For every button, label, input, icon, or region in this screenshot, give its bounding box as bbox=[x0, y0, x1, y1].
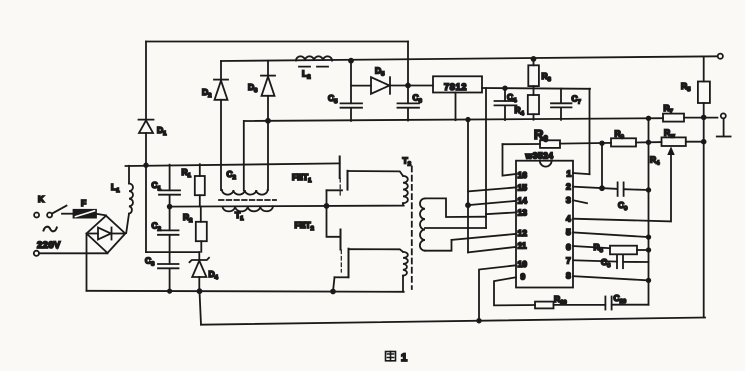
bridge rectifier bbox=[87, 216, 126, 253]
wire T2 secondary centre tap bbox=[425, 227, 486, 229]
wire T2 secondary bottom tap bbox=[425, 240, 452, 251]
svg-text:15: 15 bbox=[518, 183, 528, 193]
capacitor C1 bbox=[169, 165, 171, 191]
transistor Q1 FET1 channel bar bbox=[347, 171, 349, 190]
transformer T1 lower winding bbox=[223, 206, 273, 211]
wire pin 3 stub bbox=[573, 200, 587, 203]
transformer T1 upper winding bbox=[222, 190, 268, 195]
node D5/C6 junction bbox=[406, 84, 410, 88]
wire pin 16 to R6 bbox=[503, 144, 517, 175]
svg-text:2: 2 bbox=[566, 182, 571, 192]
wire vertical x484 from 7812 output bbox=[485, 88, 487, 228]
wire vertical bus x468 bbox=[467, 120, 469, 253]
wire FET2 gate feed bbox=[327, 206, 341, 237]
transistor Q2 FET2 channel dashes bbox=[340, 250, 342, 272]
resistor R9 bbox=[611, 138, 636, 146]
wire T2 secondary top tap bbox=[425, 198, 486, 217]
transistor Q2 FET2 gate bar bbox=[340, 230, 342, 250]
resistor R6 bbox=[503, 143, 541, 145]
node C1/C2 mid junction bbox=[168, 205, 172, 209]
svg-text:220V: 220V bbox=[37, 240, 61, 251]
svg-text:w3524: w3524 bbox=[525, 151, 554, 161]
svg-text:6: 6 bbox=[566, 242, 571, 252]
wire bottom rail B bbox=[201, 318, 705, 325]
svg-text:5: 5 bbox=[566, 227, 571, 237]
wire ground rail bbox=[244, 118, 663, 121]
svg-text:11: 11 bbox=[518, 241, 527, 251]
wire bottom rail A bbox=[87, 291, 404, 292]
svg-text:12: 12 bbox=[518, 228, 528, 238]
wire pin 5 bbox=[573, 232, 649, 237]
wire T1 winding left lead to D2 bbox=[220, 100, 222, 190]
capacitor C10 bbox=[604, 297, 606, 310]
node pin10 on rail B bbox=[477, 319, 481, 323]
wire pin 6 / resistor R8 bbox=[573, 246, 610, 248]
op-amp U1 w3524 PWM IC body bbox=[516, 161, 573, 288]
resistor R1 bbox=[199, 164, 201, 176]
regulator U2 7812 bbox=[433, 76, 482, 92]
figure caption bbox=[386, 352, 396, 361]
node D4 bottom on rail A bbox=[198, 289, 202, 293]
wire to D4 bbox=[146, 251, 199, 253]
svg-text:10: 10 bbox=[518, 259, 528, 269]
output terminal - bbox=[721, 113, 726, 118]
wire left vertical lower segment bbox=[145, 165, 147, 252]
wire vertical R6-right to pin2 bbox=[601, 143, 603, 188]
svg-text:8: 8 bbox=[566, 271, 571, 281]
wire pin 4 to potentiometer wiper bbox=[573, 154, 671, 222]
svg-text:7: 7 bbox=[566, 256, 571, 266]
capacitor C5 bbox=[350, 61, 352, 103]
wire ground rail right bbox=[684, 117, 717, 119]
svg-text:13: 13 bbox=[518, 208, 528, 218]
diode D3 bbox=[267, 61, 269, 76]
transformer T2 primary winding 1 bbox=[348, 171, 404, 176]
wire bridge left corner down bbox=[86, 234, 88, 291]
wire pin 1 bbox=[573, 173, 590, 174]
AC source symbol bbox=[44, 227, 57, 232]
node pin14 tap bbox=[466, 203, 470, 207]
zener diode D4 bbox=[198, 252, 200, 260]
svg-text:9: 9 bbox=[521, 272, 526, 282]
capacitor C2 bbox=[158, 229, 179, 231]
transformer T2 primary winding 2 bbox=[349, 249, 404, 252]
svg-text:14: 14 bbox=[518, 196, 528, 206]
resistor R4 bbox=[528, 95, 539, 114]
diode D1 bbox=[145, 42, 147, 120]
transistor Q2 FET2 source lead bbox=[335, 276, 349, 278]
wire vertical 7812-out to pin1 bbox=[589, 89, 591, 174]
wire pin 2 / capacitor C9 bbox=[573, 187, 617, 189]
resistor R7 bbox=[663, 114, 684, 122]
wire pin 10 down to bottom rail bbox=[479, 265, 516, 322]
transistor Q1 FET1 channel dashes bbox=[339, 179, 341, 198]
wire pin 7 / capacitor C8 bbox=[573, 260, 617, 261]
svg-text:3: 3 bbox=[566, 195, 571, 205]
transistor Q1 FET1 source lead bbox=[327, 189, 343, 191]
capacitor C4 bbox=[503, 86, 507, 90]
svg-text:1: 1 bbox=[567, 169, 572, 179]
inductor L2 bbox=[296, 56, 332, 60]
capacitor C7 bbox=[560, 89, 562, 104]
wire to pin 12 bbox=[452, 234, 517, 240]
T1 core bbox=[219, 199, 276, 201]
inductor L1 bbox=[128, 166, 130, 184]
wire T1 winding centre lead bbox=[243, 121, 245, 190]
transistor Q1 FET1 gate bar bbox=[339, 157, 341, 179]
wire AC bottom to bridge bbox=[39, 252, 107, 254]
AC lower terminal bbox=[34, 251, 39, 256]
wire vertical from top rail to D5 output node bbox=[407, 42, 409, 86]
fuse F bbox=[74, 210, 97, 218]
resistor R10 bbox=[535, 302, 554, 309]
svg-text:4: 4 bbox=[566, 214, 571, 224]
wire 7812 ground pin bbox=[455, 93, 457, 121]
switch K bbox=[34, 213, 39, 218]
capacitor C3 bbox=[158, 263, 179, 265]
transistor Q2 FET2 channel bar bbox=[348, 249, 350, 278]
wire vertical bus x648 bbox=[648, 118, 650, 304]
wire T1 winding right lead to D3 bbox=[267, 96, 269, 190]
resistor R2 bbox=[200, 207, 202, 222]
node D3 lead on ground rail bbox=[266, 119, 270, 123]
output terminal + bbox=[718, 54, 723, 59]
wire pin 9 to R10 bbox=[494, 277, 535, 305]
svg-text:7812: 7812 bbox=[444, 82, 467, 92]
node C3 bottom on rail A bbox=[168, 289, 171, 292]
node rail/x468 bbox=[466, 118, 470, 122]
node C5 top junction bbox=[349, 59, 353, 63]
wire to pin 13 bbox=[486, 212, 516, 214]
wire top rail bbox=[146, 41, 408, 43]
svg-text:1: 1 bbox=[401, 352, 407, 364]
wire gate rail bbox=[126, 163, 340, 166]
wire 7812 output bbox=[482, 87, 590, 90]
wire HV line to + output bbox=[221, 56, 717, 61]
node rail/D1 junction bbox=[144, 163, 148, 167]
svg-text:16: 16 bbox=[518, 170, 528, 180]
wire R6 to R9 bbox=[560, 142, 611, 145]
potentiometer Rw bbox=[662, 137, 686, 146]
wire rail A to rail B link bbox=[200, 291, 202, 325]
capacitor C6 bbox=[407, 86, 409, 104]
wire right vertical down to bottom rail bbox=[703, 103, 705, 318]
resistor R3 bbox=[532, 57, 536, 61]
svg-text:K: K bbox=[38, 194, 45, 204]
wire to pin 15 bbox=[468, 187, 516, 191]
node FET2 source on rail A bbox=[331, 290, 335, 294]
resistor R5 bbox=[703, 56, 705, 81]
transformer T2 core bbox=[411, 167, 413, 290]
diode D2 bbox=[220, 61, 222, 79]
diode D5 bbox=[351, 85, 371, 87]
svg-text:F: F bbox=[81, 198, 86, 208]
wire to pin 11 bbox=[468, 247, 516, 253]
wire to pin 14 bbox=[468, 201, 516, 205]
wire pin 8 bbox=[573, 276, 649, 280]
wire mid rail to transformer T2 bbox=[170, 206, 404, 207]
transformer T2 secondary winding bbox=[420, 198, 425, 250]
